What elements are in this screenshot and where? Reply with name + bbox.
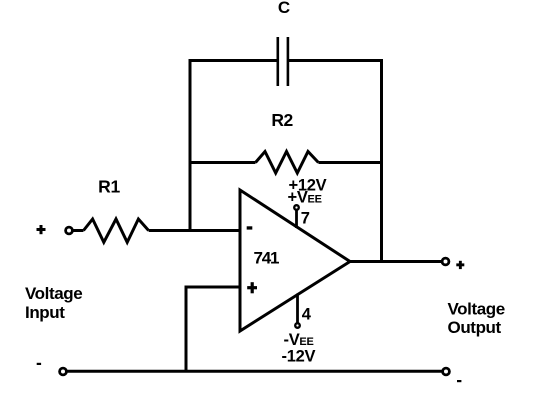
- resistor R2: [189, 152, 384, 174]
- wire: non-inverting input horizontal: [186, 286, 240, 289]
- svg-text:741: 741: [254, 249, 280, 268]
- resistor R1 and wire to inverting input: [74, 219, 241, 242]
- op-amp U1 741 triangle: [240, 190, 350, 331]
- wire: bottom rail: [65, 370, 443, 373]
- wire: left feedback vertical: [189, 59, 192, 232]
- wire: right feedback vertical: [380, 59, 383, 263]
- non-inverting input plus sign: [247, 282, 257, 293]
- wire: output: [350, 260, 442, 263]
- capacitor C: [278, 37, 288, 86]
- svg-text:7: 7: [301, 210, 310, 228]
- plus sign (voltage input): [37, 225, 46, 234]
- inverting input minus sign: [247, 226, 253, 229]
- label Voltage Input: [25, 284, 82, 322]
- svg-text:Voltage: Voltage: [448, 300, 505, 319]
- wire: top feedback right segment: [289, 59, 384, 62]
- label Voltage Output: [448, 300, 505, 338]
- wire: top feedback left segment: [189, 59, 278, 62]
- output terminal circle (-): [443, 368, 450, 375]
- plus sign (voltage output): [456, 261, 464, 269]
- wire: ground vertical: [185, 286, 188, 373]
- output terminal circle (+): [442, 258, 449, 265]
- svg-text:R1: R1: [98, 177, 120, 197]
- svg-text:4: 4: [302, 306, 312, 324]
- input terminal circle (-): [60, 368, 67, 375]
- svg-text:-12V: -12V: [282, 348, 316, 366]
- svg-text:Output: Output: [448, 318, 502, 337]
- svg-text:C: C: [278, 0, 290, 17]
- input terminal circle (+): [66, 227, 73, 234]
- pin 7 stub and terminal: [294, 205, 299, 228]
- minus sign (voltage input -): [37, 363, 41, 365]
- minus sign (voltage output -): [457, 380, 461, 382]
- svg-text:Input: Input: [25, 303, 65, 322]
- svg-text:Voltage: Voltage: [25, 284, 82, 303]
- pin 4 stub and terminal: [295, 294, 300, 328]
- svg-text:-VEE: -VEE: [284, 331, 314, 349]
- svg-text:R2: R2: [271, 110, 293, 130]
